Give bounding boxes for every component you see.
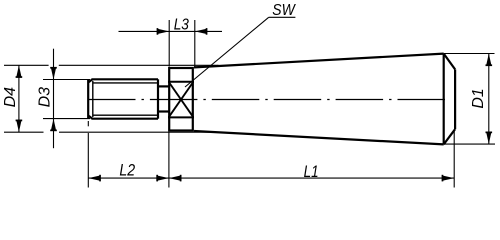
svg-text:D4: D4 <box>2 87 19 108</box>
svg-text:L3: L3 <box>174 17 189 34</box>
svg-text:L2: L2 <box>119 162 135 180</box>
svg-text:SW: SW <box>272 2 296 19</box>
svg-text:D1: D1 <box>470 88 487 108</box>
svg-text:D3: D3 <box>37 87 54 108</box>
svg-text:L1: L1 <box>304 163 319 181</box>
